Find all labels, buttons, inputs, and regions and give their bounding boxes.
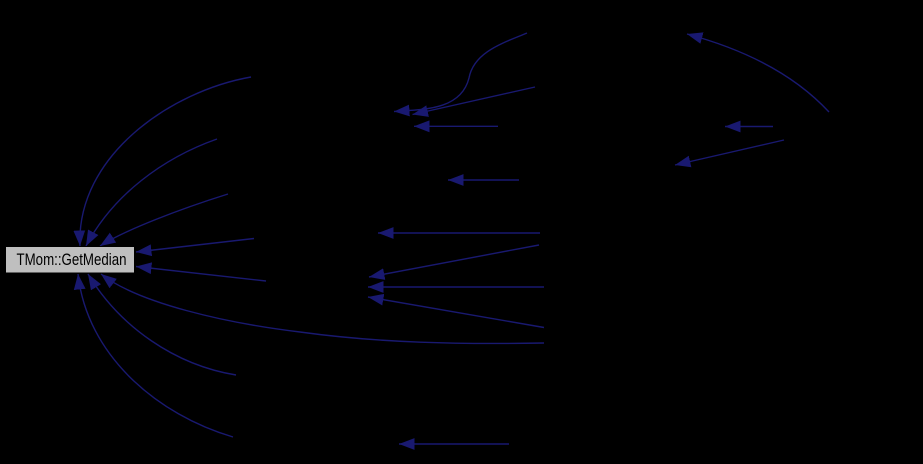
wire edge E17 bottom horizontal arrow [399, 443, 509, 445]
wire edge E3 caller curve into node top [100, 194, 228, 246]
wire edge E6 long flat curve into node bottom [101, 274, 544, 343]
wire edge E14 diagonal arrow into middle cluster [369, 245, 539, 277]
wire edge E13 horizontal arrow y233 [378, 232, 540, 234]
svg-text:TMom::GetMedian: TMom::GetMedian [17, 251, 127, 269]
wire edge E20 diagonal arrow right side [675, 140, 784, 165]
wire edge E15 horizontal arrow y287 [368, 286, 544, 288]
wire edge E1 caller curve top outer into node top [80, 77, 251, 246]
wire edge E18 curved arrow right side [687, 34, 829, 112]
wire edge E2 caller curve into node top [86, 139, 217, 246]
wire edge E16 diagonal arrow into middle cluster lower [368, 297, 544, 328]
wire edge E11 short horizontal top middle [414, 125, 498, 127]
wire edge E5 straight into node right lower [136, 267, 266, 282]
wire edge E8 caller curve bottom outer into node bottom [78, 274, 233, 437]
wire edge E19 short horizontal right side [725, 126, 773, 128]
wire edge E9 S-curve top middle [394, 33, 527, 112]
wire edge E7 caller curve into node bottom [88, 274, 236, 375]
wire edge E12 horizontal arrow y180 [448, 179, 519, 181]
wire edge E4 straight into node right upper [136, 239, 254, 253]
node TMom::GetMedian [6, 247, 135, 274]
wire edge E10 diagonal top middle [413, 87, 536, 115]
